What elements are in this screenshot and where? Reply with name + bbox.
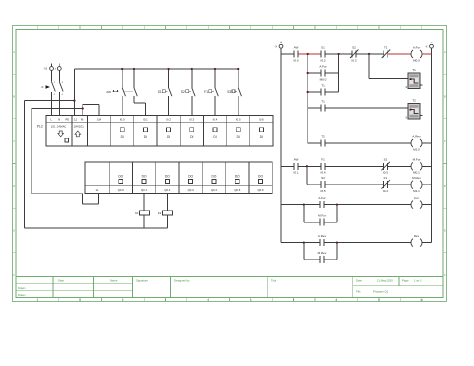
svg-text:DI: DI — [213, 135, 216, 139]
svg-text:Date: Date — [58, 279, 64, 283]
svg-text:K2: K2 — [158, 211, 162, 215]
svg-text:DO: DO — [235, 175, 240, 179]
svg-text:Rev: Rev — [414, 234, 420, 238]
svg-text:A.For: A.For — [413, 45, 420, 49]
svg-text:DO: DO — [188, 175, 193, 179]
svg-text:M0.1: M0.1 — [413, 171, 420, 175]
svg-text:T1: T1 — [384, 45, 388, 49]
svg-text:I0.5: I0.5 — [236, 118, 241, 122]
svg-text:M.For: M.For — [413, 158, 421, 162]
svg-text:DO: DO — [118, 175, 123, 179]
svg-text:DI: DI — [167, 135, 170, 139]
svg-text:Signature: Signature — [136, 279, 148, 283]
svg-text:F1: F1 — [204, 90, 208, 94]
svg-text:M.For: M.For — [318, 214, 326, 218]
svg-text:T1: T1 — [321, 99, 325, 103]
svg-text:Name: Name — [110, 279, 118, 283]
svg-text:−: − — [431, 41, 433, 45]
svg-text:For: For — [414, 196, 419, 200]
svg-text:T1: T1 — [412, 68, 416, 72]
svg-text:Q0.0: Q0.0 — [118, 188, 125, 192]
svg-text:A.Rev: A.Rev — [412, 134, 421, 138]
svg-text:D: D — [444, 185, 446, 188]
svg-text:I0.1: I0.1 — [293, 171, 298, 175]
svg-text:Titul: Titul — [271, 279, 277, 283]
svg-text:DI: DI — [121, 135, 124, 139]
svg-text:Q0.3: Q0.3 — [188, 188, 195, 192]
svg-text:S1: S1 — [321, 45, 325, 49]
svg-text:File: File — [356, 290, 361, 294]
svg-text:A.For: A.For — [318, 196, 325, 200]
svg-text:AW: AW — [294, 158, 299, 162]
svg-text:I0.1: I0.1 — [143, 118, 148, 122]
svg-text:DO: DO — [212, 175, 217, 179]
svg-text:DO: DO — [142, 175, 147, 179]
svg-text:C: C — [444, 140, 446, 143]
svg-text:I0.5: I0.5 — [320, 189, 325, 193]
svg-text:K1: K1 — [135, 211, 139, 215]
svg-text:-X: -X — [425, 45, 428, 48]
svg-text:M0.0: M0.0 — [413, 58, 420, 62]
svg-text:120...240VAC: 120...240VAC — [51, 125, 67, 128]
svg-text:DO: DO — [258, 175, 263, 179]
svg-text:F1: F1 — [384, 176, 388, 180]
svg-text:M1.0: M1.0 — [413, 147, 420, 151]
svg-text:A.For: A.For — [319, 64, 326, 68]
svg-text:DI: DI — [260, 135, 263, 139]
svg-text:-X1: -X1 — [43, 68, 48, 71]
svg-text:M.Rev: M.Rev — [412, 176, 421, 180]
svg-text:M.Rev: M.Rev — [318, 251, 327, 255]
svg-text:DI: DI — [190, 135, 193, 139]
svg-text:I0.6: I0.6 — [259, 118, 264, 122]
svg-text:DO: DO — [165, 175, 170, 179]
svg-text:I0.4: I0.4 — [383, 189, 388, 193]
svg-text:T1: T1 — [321, 83, 325, 87]
svg-text:I0.5: I0.5 — [383, 171, 388, 175]
svg-text:N: N — [58, 118, 60, 122]
svg-text:-F: -F — [41, 85, 44, 89]
svg-text:-X: -X — [275, 45, 278, 48]
svg-text:Designed by: Designed by — [174, 279, 190, 283]
svg-text:I0.3: I0.3 — [351, 58, 356, 62]
svg-text:I0.0: I0.0 — [293, 58, 298, 62]
svg-text:S3: S3 — [227, 90, 231, 94]
svg-text:D: D — [13, 185, 15, 188]
svg-text:DI: DI — [144, 135, 147, 139]
svg-text:M1.1: M1.1 — [413, 189, 420, 193]
svg-text:A.Rev: A.Rev — [318, 234, 327, 238]
svg-text:S1: S1 — [384, 158, 388, 162]
svg-text:PE: PE — [65, 118, 69, 122]
svg-text:Q0.5: Q0.5 — [234, 188, 241, 192]
svg-text:DI: DI — [237, 135, 240, 139]
svg-text:M0.0: M0.0 — [320, 77, 327, 81]
svg-text:AW: AW — [294, 45, 299, 49]
svg-text:T2: T2 — [321, 134, 325, 138]
svg-text:I0.3: I0.3 — [189, 118, 194, 122]
svg-text:PLC: PLC — [37, 125, 44, 129]
svg-text:Q0.2: Q0.2 — [164, 188, 171, 192]
svg-text:T2: T2 — [412, 99, 416, 103]
svg-text:S2: S2 — [352, 45, 356, 49]
svg-text:AW: AW — [106, 90, 111, 94]
svg-text:I0.4: I0.4 — [320, 171, 325, 175]
svg-text:Page: Page — [402, 279, 409, 283]
svg-text:Q0.6: Q0.6 — [258, 188, 265, 192]
svg-text:Q0.4: Q0.4 — [211, 188, 218, 192]
svg-text:1M: 1M — [97, 118, 102, 122]
svg-text:Q0.1: Q0.1 — [141, 188, 148, 192]
svg-text:Date: Date — [356, 279, 362, 283]
svg-text:F1: F1 — [321, 158, 325, 162]
svg-text:S3: S3 — [321, 176, 325, 180]
svg-text:1 av 1: 1 av 1 — [414, 279, 422, 283]
svg-text:(24VDC): (24VDC) — [74, 125, 84, 128]
svg-text:L1: L1 — [74, 118, 78, 122]
svg-text:Drawn: Drawn — [18, 293, 26, 297]
svg-text:I0.2: I0.2 — [320, 58, 325, 62]
svg-text:I0.0: I0.0 — [120, 118, 125, 122]
svg-text:C: C — [13, 140, 15, 143]
svg-text:I0.2: I0.2 — [166, 118, 171, 122]
svg-text:11.May.2020: 11.May.2020 — [377, 279, 393, 283]
svg-text:1L: 1L — [95, 188, 99, 192]
svg-text:S1: S1 — [158, 90, 162, 94]
svg-text:I0.4: I0.4 — [213, 118, 218, 122]
svg-text:S2: S2 — [181, 90, 185, 94]
svg-text:Drawn: Drawn — [18, 286, 26, 290]
svg-text:Program Q1: Program Q1 — [373, 290, 389, 294]
